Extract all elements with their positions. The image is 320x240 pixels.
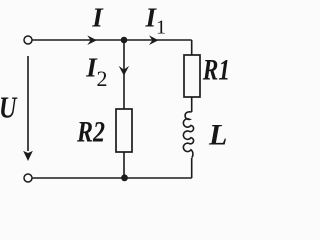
resistor R2	[116, 109, 132, 152]
svg-text:L: L	[208, 118, 227, 151]
wire top	[33, 39, 192, 41]
arrowhead current I1	[149, 35, 159, 45]
resistor R1	[184, 55, 200, 97]
arrowhead current I	[87, 35, 97, 45]
wire right branch upper	[191, 40, 193, 55]
svg-text:R1: R1	[202, 53, 230, 86]
wire bottom	[33, 177, 192, 179]
terminal top-left	[24, 36, 32, 44]
voltage arrow line U	[27, 56, 29, 151]
wire middle branch upper	[123, 40, 125, 109]
svg-text:1: 1	[156, 17, 166, 39]
junction node bottom	[121, 174, 128, 181]
svg-text:2: 2	[97, 66, 108, 91]
wire R1 to coil	[191, 97, 193, 112]
inductor L	[183, 112, 193, 158]
terminal bottom-left	[24, 174, 32, 182]
svg-text:R2: R2	[76, 115, 105, 148]
arrowhead current I2	[119, 66, 129, 76]
svg-text:U: U	[0, 91, 18, 126]
wire coil to bottom	[191, 158, 193, 178]
arrowhead voltage U	[23, 151, 33, 161]
junction node top	[121, 37, 128, 44]
svg-text:I: I	[91, 2, 104, 32]
wire middle branch lower	[123, 152, 125, 178]
